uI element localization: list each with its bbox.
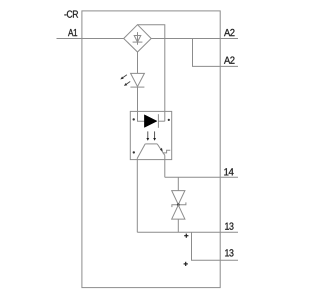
- relay module outline box: [82, 11, 220, 288]
- wire 14: [165, 176, 238, 178]
- TVS suppressor diode lower: [172, 205, 185, 219]
- optocoupler LED: [144, 114, 164, 128]
- wire bridge to A2: [151, 38, 238, 40]
- wire emitter to rail 14: [164, 155, 166, 177]
- optocoupler pin dot anode: [133, 118, 135, 120]
- phototransistor emitter arrowhead: [160, 148, 163, 152]
- TVS suppressor diode upper: [172, 191, 185, 205]
- coupling arrow 1: [146, 131, 149, 140]
- wire 13: [137, 231, 238, 233]
- label A2 (first): [224, 29, 235, 36]
- polarity + mark first: [184, 234, 188, 238]
- wire jumper to second A2: [193, 39, 239, 67]
- label A1: [68, 29, 77, 36]
- TVS zener bar: [172, 202, 186, 207]
- LED emission arrow 2: [124, 82, 130, 86]
- polarity + mark second: [184, 262, 188, 266]
- wire bridge bottom to LED: [137, 52, 139, 73]
- bridge rectifier diamond: [124, 25, 152, 52]
- bridge inner diode: [133, 32, 143, 45]
- LED indicator diode: [130, 73, 144, 87]
- LED emission arrow 1: [120, 75, 127, 80]
- wire 14 to TVS: [177, 177, 179, 190]
- wire A1 to bridge: [57, 38, 124, 40]
- wire collector to contact rail 13: [136, 158, 138, 232]
- wire jumper to second 13: [192, 232, 239, 260]
- wire bridge top to cathode rail: [138, 25, 165, 122]
- optocoupler U1 box: [130, 111, 171, 159]
- phototransistor: [137, 144, 170, 158]
- label -CR: [64, 10, 78, 17]
- optocoupler pin dot emitter: [133, 151, 135, 153]
- wire TVS to rail 13: [177, 219, 179, 232]
- coupling arrow 2: [153, 131, 156, 140]
- label A2 (second): [224, 57, 235, 64]
- optocoupler pin dot cathode: [168, 119, 170, 121]
- label 13 (second): [225, 249, 233, 256]
- wire LED cathode into optocoupler: [138, 87, 145, 121]
- label 13 (first): [225, 223, 233, 230]
- TVS junction dot: [177, 203, 180, 206]
- label 14: [224, 168, 233, 175]
